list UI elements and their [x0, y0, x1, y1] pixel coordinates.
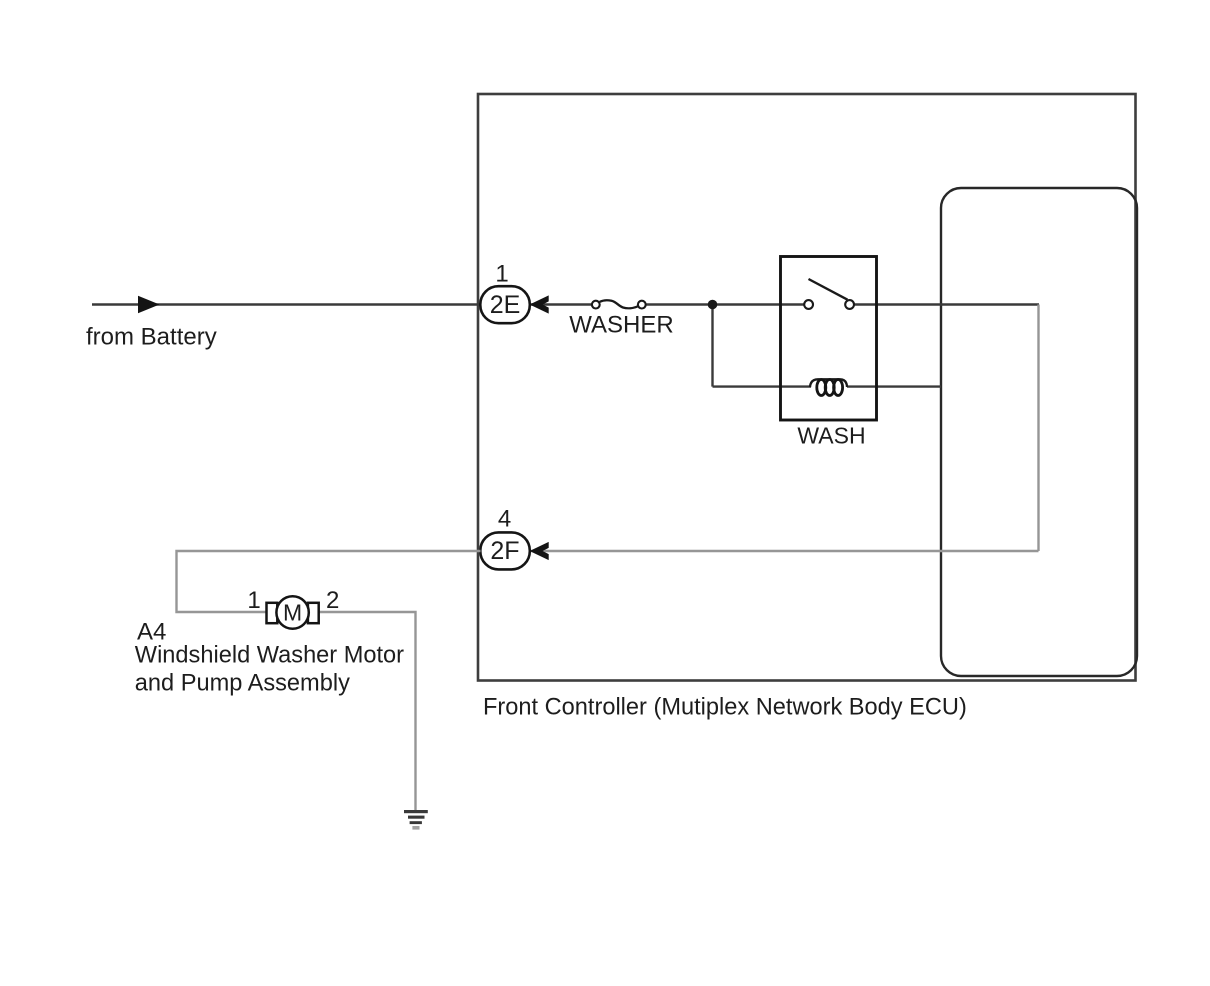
ECU internal rounded block [941, 188, 1137, 676]
wire switch output down [1037, 305, 1039, 552]
arrow into 2F [530, 542, 549, 560]
relay coil [810, 379, 847, 395]
svg-text:WASH: WASH [797, 422, 865, 448]
svg-text:A4: A4 [137, 618, 166, 645]
svg-text:4: 4 [498, 506, 511, 533]
svg-text:2E: 2E [490, 291, 521, 319]
svg-text:2F: 2F [490, 537, 519, 565]
svg-text:WASHER: WASHER [569, 312, 673, 339]
relay switch contacts [804, 300, 813, 309]
svg-text:1: 1 [247, 587, 260, 614]
svg-text:Front Controller (Mutiplex Net: Front Controller (Mutiplex Network Body … [483, 695, 967, 721]
wire motor to ground drop [318, 612, 416, 810]
wire 2E to fuse [530, 303, 592, 305]
svg-text:M: M [283, 600, 302, 626]
wire ECU to 2F [530, 550, 1039, 552]
junction dot [708, 300, 718, 310]
svg-text:Windshield Washer Motor: Windshield Washer Motor [135, 643, 404, 669]
svg-text:from Battery: from Battery [86, 324, 217, 351]
wire 2F to motor [177, 551, 481, 612]
arrow into 2E [530, 295, 549, 313]
wire from Battery to 2E [92, 303, 481, 305]
wire fuse to relay switch [646, 303, 805, 305]
from Battery arrow [138, 296, 160, 313]
ground [404, 810, 428, 830]
connector 2E pin 1 [480, 286, 530, 323]
fuse WASHER [592, 300, 646, 308]
svg-text:and Pump Assembly: and Pump Assembly [135, 671, 350, 697]
wire coil to internal block [847, 385, 941, 387]
svg-text:1: 1 [495, 260, 508, 287]
connector 2F pin 4 [480, 532, 530, 569]
motor M terminals [267, 603, 278, 623]
svg-text:2: 2 [326, 587, 339, 614]
wire junction down to coil feed [711, 305, 713, 387]
relay switch blade [809, 279, 848, 300]
ECU box Front Controller [478, 94, 1136, 681]
relay box WASH [781, 257, 877, 421]
wire to relay coil [713, 385, 812, 387]
motor M circle [276, 596, 308, 628]
relay switch output wire [854, 303, 1039, 305]
